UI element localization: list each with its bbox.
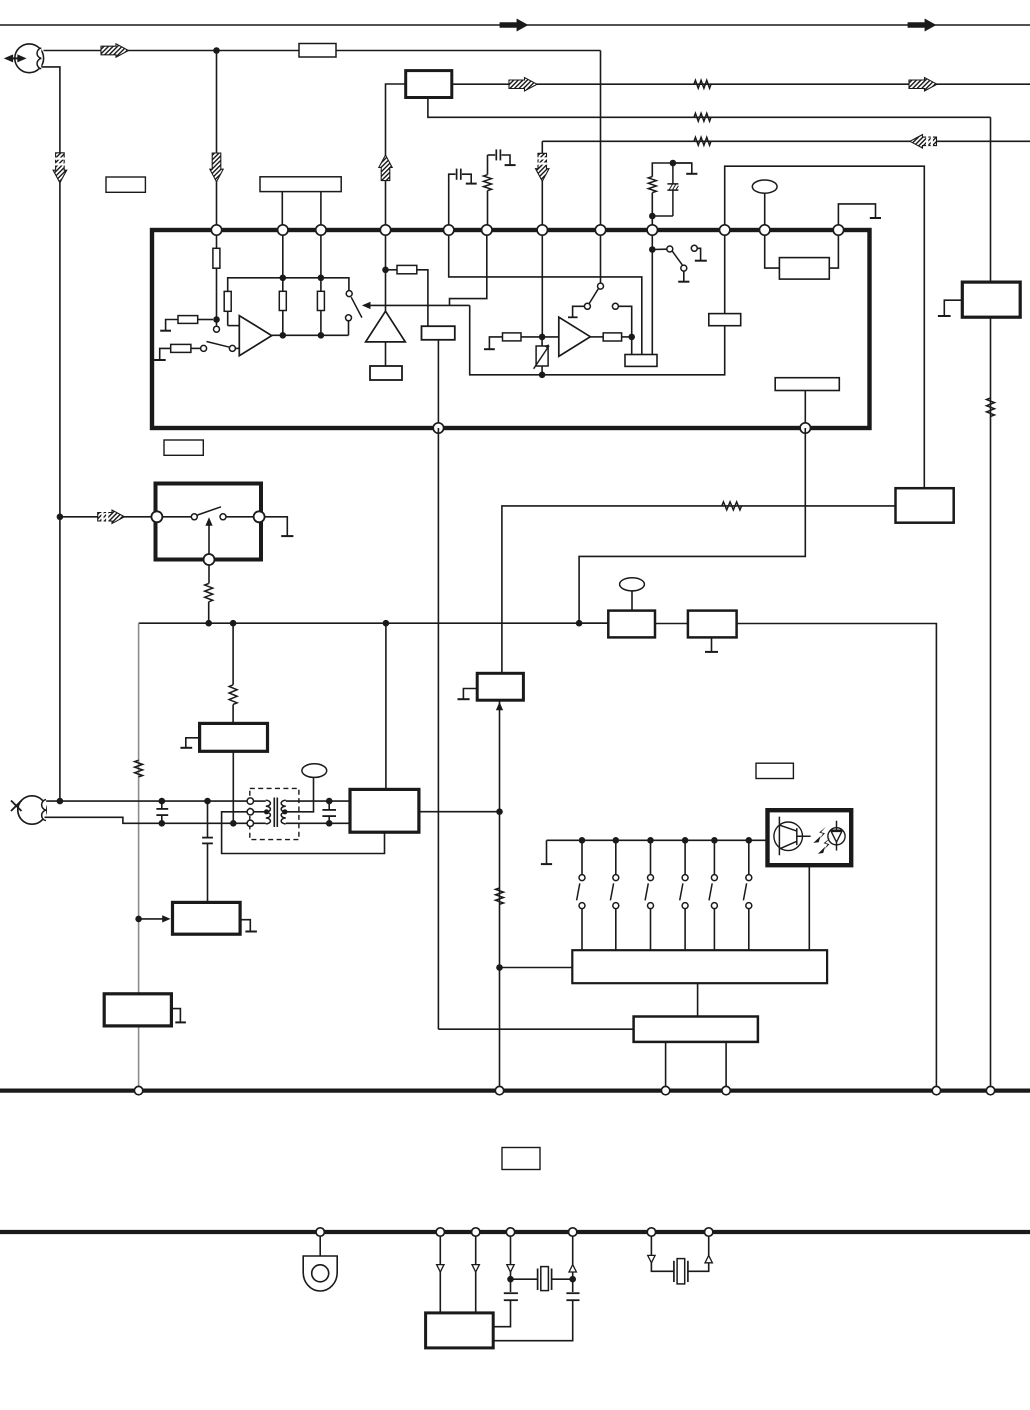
wire C8 to B19 right b: [493, 1300, 573, 1341]
wire B13 right output to sense node: [419, 811, 500, 813]
junction relay feed on left column: [57, 514, 64, 521]
capacitor C4: [322, 809, 336, 811]
junction switch S5 rail: [579, 837, 586, 844]
junction switch S7 rail: [647, 837, 654, 844]
switch S1 input contact: [191, 347, 201, 349]
capacitor C1: [456, 169, 458, 180]
pin 1 of U1: [211, 225, 221, 235]
wire pin9 down to B5: [651, 230, 653, 355]
bus1 terminal at x=499.5: [495, 1086, 503, 1094]
box B3a: [422, 326, 455, 340]
switch S3 blade: [589, 289, 598, 304]
resistor R8 (U1b input): [503, 333, 522, 341]
junction C3 column top: [204, 798, 211, 805]
wire switch-bank common rail: [547, 839, 768, 841]
box B21: [962, 282, 1020, 317]
switch S4 contact a: [652, 248, 666, 250]
wire select line down to y=375 rail: [470, 305, 725, 374]
wire B14 leg b to bus1: [725, 1042, 727, 1091]
wire B2 output y=84 to right edge: [452, 83, 1030, 85]
op-amp U1b: [559, 317, 591, 356]
pin 5 of U1: [444, 225, 454, 235]
junction C6 top: [159, 798, 166, 805]
wire bus2 to B19 leg b: [475, 1232, 477, 1313]
wire J2 top rail y=801: [46, 800, 247, 802]
wire secondary top to B13: [286, 800, 350, 802]
bus1 terminal at x=138.6: [134, 1086, 142, 1094]
flag arrow A1: [101, 44, 129, 57]
capacitor C6: [156, 808, 168, 810]
ground G7 at pin12: [838, 204, 875, 225]
ground G18 of switch rail: [546, 840, 548, 863]
junction J2 rail-left column: [57, 798, 64, 805]
connector J2: [18, 796, 46, 824]
wire E3 to B10: [631, 591, 633, 611]
wire pin7 down to U1b input node: [541, 230, 543, 337]
relay pin bottom: [204, 554, 215, 565]
capacitor C5 (hatched): [667, 163, 678, 216]
switch S3 contact a: [584, 303, 590, 309]
switch S1 output contact: [229, 345, 235, 351]
ellipse probe E2: [302, 764, 327, 778]
wire select line with arrowhead: [369, 304, 469, 306]
relay RL1 blade: [198, 507, 222, 515]
relay pin right: [254, 511, 265, 522]
ground G5: [683, 271, 685, 281]
flag arrow A9: [98, 510, 125, 524]
wire S1 to op-amp U1a input: [236, 347, 240, 349]
wire pin6 up via resistor R13 to capacitor C2: [487, 191, 489, 230]
wire bus2 to B19 leg a: [439, 1232, 441, 1313]
resonator Y1 box: [260, 177, 341, 192]
wire B2 bottom to y=117 line to right column: [428, 98, 991, 118]
wire J1 lower branch down left side: [42, 67, 60, 801]
wire R4 bottom to U1a + input: [228, 325, 240, 327]
T1 primary terminal 1: [247, 798, 253, 804]
junction at op-amp U1a inverting node: [213, 316, 220, 323]
wire B10 to B11: [655, 623, 688, 625]
bus1 terminal at x=726.1: [722, 1086, 730, 1094]
junction rail-pin14 net: [576, 620, 583, 627]
bus2 terminal at x=475.7: [472, 1228, 480, 1236]
junction switch S9 rail: [711, 837, 718, 844]
switch S5: [581, 840, 583, 874]
wire y=117 corner down right column: [990, 117, 992, 1090]
wire B9 left to B12 feed: [502, 506, 896, 673]
wire arrow into B17: [139, 918, 165, 920]
motor M1 stem: [319, 1232, 321, 1256]
junction C6 bottom: [159, 820, 166, 827]
resistor R11 on y=117 line: [694, 113, 711, 121]
junction U1b output node: [628, 334, 635, 341]
switch S3 contact b: [612, 303, 618, 309]
resistor R2: [178, 316, 198, 324]
resistor R20: [229, 685, 237, 705]
wire B14 leg a to bus1: [665, 1042, 667, 1091]
wire op-amp U1a output rail: [272, 334, 349, 336]
switch S4 contact c: [681, 265, 687, 271]
ground bus GB2: [0, 1230, 1030, 1234]
wire pin2 down: [282, 230, 284, 278]
switch S6: [615, 840, 617, 874]
pin 7 of U1: [537, 225, 547, 235]
wire S2 to output rail: [348, 321, 350, 336]
capacitor C8: [566, 1292, 579, 1294]
wire terminal1 to primary coil: [254, 800, 266, 802]
junction switch S6 rail: [613, 837, 620, 844]
wire terminal2 to primary tap: [254, 811, 266, 813]
pin 11 of U1: [760, 225, 770, 235]
junction node A: [213, 47, 220, 54]
transformer T1 dashed outline: [250, 788, 299, 839]
wire relay contact b to right pin: [226, 516, 254, 518]
resistor R7: [386, 269, 398, 271]
pin 2 of U1: [278, 225, 288, 235]
switch S4 blade: [672, 251, 682, 265]
open arrow X1 right (up): [569, 1265, 576, 1272]
ground G16 of B18: [171, 1009, 180, 1022]
wire bus2 to crystal X1 left leg: [510, 1232, 512, 1292]
box B13: [350, 789, 419, 832]
junction C4 top: [326, 798, 333, 805]
junction C4 bottom: [326, 820, 333, 827]
wire J2 lower rail: [45, 817, 248, 823]
wire terminal3 to primary coil: [254, 822, 266, 824]
capacitor C7: [504, 1292, 518, 1294]
ground G8 for C1: [462, 174, 471, 183]
box B3b: [370, 366, 402, 380]
label box L2: [164, 440, 203, 455]
box B11: [688, 611, 737, 638]
T1 primary terminal 2: [247, 809, 253, 815]
ground G9 for C2: [502, 155, 511, 165]
junction pin9-switch S4: [649, 246, 656, 253]
wire IC pin13 net down-right to B14: [437, 428, 439, 1029]
capacitor C3 in series to B17: [207, 801, 209, 837]
junction output-R5: [280, 332, 287, 339]
rheostat VR1: [536, 346, 548, 366]
wire J1 to node A (y=50.5 rail): [44, 50, 300, 52]
op-amp IC U1 outline: [152, 230, 870, 428]
wire pin10 down to B6: [724, 230, 726, 314]
ground G14 of B16: [186, 738, 200, 748]
bus2 terminal at x=572.7: [569, 1228, 577, 1236]
PC1 light arrows: [819, 827, 826, 839]
optocoupler PC1 box: [768, 810, 852, 865]
junction rail-B13 feed: [383, 620, 390, 627]
wire pin9 RC top rail: [652, 163, 692, 177]
capacitor C2: [495, 149, 497, 160]
ellipse probe E1: [752, 180, 777, 193]
ground G13 of B12: [463, 689, 477, 699]
junction X1 right: [569, 1276, 576, 1283]
switch S4 contact b: [691, 245, 697, 251]
wire y=141 line: [542, 140, 1030, 142]
resistor R5: [282, 278, 284, 292]
switch S8: [684, 840, 686, 874]
open arrow to B19 a: [437, 1265, 444, 1272]
wire rail down to B13 top: [385, 623, 387, 789]
ground G6: [697, 248, 700, 260]
pin 3 of U1: [316, 225, 326, 235]
T1 core: [273, 798, 275, 828]
resistor R10 on y=84 line: [694, 80, 711, 88]
junction pin3 rail: [318, 275, 325, 282]
resistor R12 on y=141 line: [694, 137, 711, 145]
relay RL1 contact b: [220, 514, 226, 520]
switch S7: [650, 840, 652, 874]
switch S1 blade: [207, 342, 230, 348]
wire pin10 up and right to B9 column: [725, 166, 925, 488]
wire S3a to U1b +input tick: [573, 306, 585, 317]
resistor R17 below relay: [208, 565, 210, 584]
switch S3 common contact: [598, 283, 604, 289]
wire B16 bottom to lower AC rail: [232, 751, 234, 823]
resistor R6: [320, 278, 322, 292]
box B9: [896, 488, 954, 523]
resistor R9 (U1b output): [590, 336, 603, 338]
wire B7 to IC bottom pin14: [804, 391, 806, 429]
T1 secondary winding: [281, 800, 286, 824]
bus2 terminal at x=510.5: [506, 1228, 514, 1236]
wire E1 to pin11: [764, 193, 766, 230]
box B15: [572, 950, 827, 983]
wire rail to B16 via resistor R20: [232, 623, 234, 685]
open arrow to B19 b: [472, 1265, 479, 1272]
ground G3: [489, 337, 502, 349]
box B12: [477, 673, 523, 700]
box B17: [173, 902, 241, 934]
T1 primary winding: [266, 800, 271, 824]
signal-flow arrow F2: [908, 19, 936, 31]
flag arrow A6: [509, 78, 537, 92]
pin 6 of U1: [482, 225, 492, 235]
switch S2 blade: [351, 297, 362, 317]
junction switch S10 rail: [746, 837, 753, 844]
open arrow X2 right (up): [705, 1255, 712, 1262]
junction primary tap: [264, 809, 269, 814]
wire S3b to output node: [618, 306, 631, 354]
box B18: [104, 994, 171, 1026]
junction on RC rail: [670, 160, 677, 167]
wire R7 to B3a: [417, 270, 428, 326]
bidirectional arrow at J1: [10, 57, 21, 59]
wire X2 to bus2 right leg: [688, 1232, 709, 1271]
junction output-R6: [318, 332, 325, 339]
ground tick G4: [568, 316, 578, 318]
wire B12 bottom sense line with up arrow: [499, 700, 501, 1090]
wire B15 bottom to B14: [697, 983, 699, 1016]
wire PC1 to B15: [808, 865, 810, 950]
X mark at J2: [11, 801, 22, 812]
junction pin4 feedback node: [382, 267, 389, 274]
wire pin5 up to capacitor C1: [449, 174, 456, 230]
switch S2 lower contact: [346, 315, 352, 321]
pin 9 of U1: [647, 225, 657, 235]
ground bus GB1: [0, 1088, 1030, 1092]
junction secondary tap: [282, 809, 287, 814]
bus1 terminal at x=936.4: [932, 1086, 940, 1094]
wire bus2 to crystal X2 left leg: [651, 1232, 674, 1271]
wire pin8 down to switch S3 common: [600, 230, 602, 283]
wire sense to B15 left: [500, 967, 573, 969]
bus1 terminal at x=665.6: [661, 1086, 669, 1094]
PC1 LED D1: [828, 828, 845, 845]
crystal X2: [673, 1261, 675, 1282]
pin 4 of U1: [380, 225, 390, 235]
box B6: [709, 314, 741, 326]
junction pin2 rail: [280, 275, 287, 282]
resistor R16 on B9 wire: [722, 502, 742, 510]
wire top supply bus: [0, 24, 1030, 26]
relay RL1 contact a: [191, 514, 197, 520]
resistor R15 right column: [987, 398, 995, 416]
resistor R1 (pin1 pull): [216, 230, 218, 248]
box B2: [406, 71, 452, 98]
wire y=141 corner down to pin7 via flag: [541, 141, 543, 230]
open arrow X1 left: [507, 1265, 514, 1272]
junction U1b input node: [539, 334, 546, 341]
wire feedback rail y=278 (pins 2,3): [227, 311, 229, 325]
wire mid rail y=623: [139, 622, 609, 624]
component box FB1 on y=50.5 rail: [299, 44, 336, 58]
label box L5: [756, 763, 793, 778]
wire Y1 leg to pin3: [320, 192, 322, 230]
wire pin4 up to box B2: [386, 84, 406, 230]
op-amp U1a: [239, 316, 271, 356]
PC1 phototransistor Q1: [774, 822, 803, 851]
ground G17 of B21: [944, 300, 962, 315]
pin 13 of U1 (bottom): [433, 423, 443, 433]
wire pin5 internal rail y=277: [449, 230, 642, 355]
wire pin3 down: [320, 230, 322, 278]
box B10: [608, 611, 655, 638]
bus2 terminal at x=651.4: [647, 1228, 655, 1236]
resistor R14: [648, 177, 656, 193]
wire R14 to pin9: [651, 193, 653, 230]
ground G12 below B11: [711, 637, 713, 651]
junction X1 left: [507, 1276, 514, 1283]
wire relay left pin to contact a: [162, 516, 191, 518]
pin 12 of U1: [833, 225, 843, 235]
flag arrow A2 (down): [53, 153, 67, 183]
label box L4: [502, 1148, 540, 1170]
resistor R4 (feedback): [224, 291, 231, 311]
wire pin14 net: down from IC pin14, left, down to rail: [579, 428, 805, 623]
crystal X1: [514, 1278, 538, 1280]
resistor R3: [171, 344, 191, 352]
open arrow X2 left: [648, 1255, 655, 1262]
bus2 terminal at x=320.2: [316, 1228, 324, 1236]
switch S1a contact: [214, 326, 220, 332]
box B5: [625, 355, 657, 367]
resistor R18 on shield column: [135, 760, 143, 777]
wire T2 base to box B3b: [385, 342, 387, 366]
flag arrow A3 (down): [210, 153, 223, 182]
junction sense to B15: [496, 964, 503, 971]
wire pin6 internal jog to select line: [450, 230, 487, 305]
flag arrow A4 (up): [379, 155, 392, 181]
ground G11 right of relay: [265, 517, 288, 536]
relay pin left: [151, 511, 162, 522]
wire node A down to pin1 via flag: [216, 51, 218, 231]
bus1 terminal at x=990.5: [986, 1086, 994, 1094]
box B7: [775, 378, 839, 391]
wire pin12 to B8 right: [829, 230, 838, 268]
pin 14 of U1 (bottom): [800, 423, 810, 433]
switch S10: [748, 840, 750, 874]
flag arrow A5 (down): [536, 153, 550, 181]
box B8: [779, 258, 829, 280]
bus2 terminal at x=708.7: [705, 1228, 713, 1236]
wire B3a to IC bottom pin13: [437, 340, 439, 428]
junction rail-R17: [205, 620, 212, 627]
motor M1: [303, 1256, 337, 1291]
wire Y1 leg to pin2: [281, 192, 283, 230]
wire bus2 to crystal X1 right leg: [572, 1232, 574, 1292]
junction below R14: [649, 213, 656, 220]
label box L1: [106, 177, 145, 192]
wire C7 to B19 right a: [493, 1300, 510, 1327]
resistor R19 on sense line: [496, 888, 504, 904]
ground G2: [160, 348, 171, 359]
junction B13 output node: [496, 808, 503, 815]
wire pin11 to B8 left: [765, 230, 780, 268]
pin 10 of U1: [720, 225, 730, 235]
buffer amp T2: [366, 311, 406, 342]
wire secondary bottom to B13: [286, 822, 350, 824]
T1 primary terminal 3: [247, 820, 253, 826]
box B19: [426, 1313, 494, 1348]
box B14: [634, 1017, 758, 1042]
junction rheostat bottom: [539, 372, 546, 379]
wire pin4 node down to buffer apex: [385, 230, 387, 311]
wire rail to box B10: [579, 622, 608, 624]
connector J1: [15, 44, 44, 73]
wire B11 right to bus1: [737, 624, 937, 1091]
ground G1: [166, 320, 178, 331]
bus2 terminal at x=440.3: [436, 1228, 444, 1236]
ground G15 of B17: [240, 920, 250, 931]
resistor R13: [484, 175, 492, 191]
junction B16-lower rail: [230, 820, 237, 827]
ground G10 of RC network: [673, 163, 692, 173]
flag arrow A7: [909, 78, 937, 92]
ellipse probe E3: [620, 578, 645, 591]
wire secondary tap to ellipse E2: [285, 777, 314, 811]
relay coil arrow: [208, 525, 210, 554]
junction rail-B16 feed: [230, 620, 237, 627]
box B16: [200, 723, 268, 751]
relay RL1 box: [156, 484, 262, 560]
flag arrow A8 (left): [910, 135, 937, 149]
junction shield to B17: [135, 916, 142, 923]
wire C5 bottom to junction: [652, 215, 673, 217]
wire to relay RL1: [60, 516, 151, 518]
wire B13 bottom loop to T1 terminal2: [222, 812, 385, 854]
pin 8 of U1: [595, 225, 605, 235]
switch S9: [713, 840, 715, 874]
wire y=50.5 rail corner down to pin8: [600, 51, 602, 231]
wire rail corner down left column (shield): [138, 623, 140, 1090]
switch S2 upper contact: [346, 291, 352, 297]
signal-flow arrow F1: [500, 19, 528, 31]
junction switch S8 rail: [682, 837, 689, 844]
